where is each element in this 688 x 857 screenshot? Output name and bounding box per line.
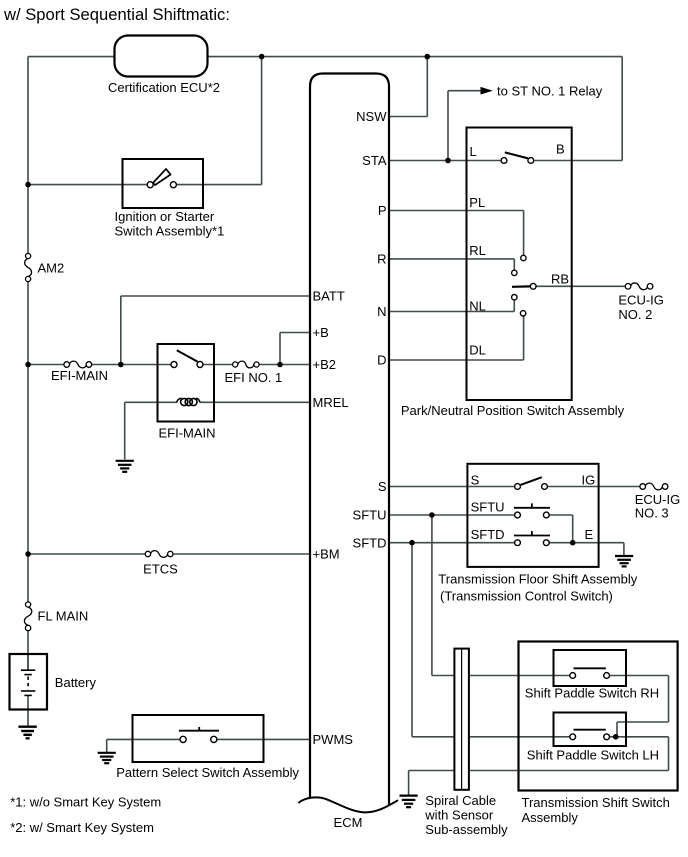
svg-text:Spiral Cable: Spiral Cable: [425, 793, 496, 808]
wire spiral cable ground stem: [408, 771, 410, 795]
ECM body: [310, 74, 389, 807]
wire paddle RH horizontal: [432, 675, 573, 677]
junction SFTU paddle branch: [429, 512, 435, 518]
wire paddle common return: [409, 770, 669, 772]
svg-text:+BM: +BM: [313, 547, 340, 562]
svg-text:Transmission Shift Switch: Transmission Shift Switch: [522, 795, 670, 810]
shift paddle switch LH box: [554, 713, 627, 747]
svg-text:Shift Paddle Switch RH: Shift Paddle Switch RH: [525, 686, 659, 701]
wire pattern select to ECM PWMS: [214, 738, 310, 740]
fuse ETCS: [145, 551, 173, 558]
svg-text:ECM: ECM: [334, 815, 363, 830]
paddle RH contact left: [570, 673, 576, 679]
SFTU switch contact left: [515, 512, 521, 518]
svg-text:Shift Paddle Switch LH: Shift Paddle Switch LH: [527, 748, 659, 763]
SFTU switch bar: [514, 507, 550, 509]
paddle LH contact right: [604, 734, 610, 740]
wire BATT vertical drop: [120, 296, 122, 365]
wire NL contact vertical: [513, 300, 515, 312]
paddle LH contact left: [570, 734, 576, 740]
wire STA to park/neutral switch L: [389, 160, 504, 162]
svg-text:RL: RL: [469, 243, 486, 258]
wire SFTU-SFTD join vertical: [572, 515, 574, 543]
svg-text:w/ Sport Sequential Shiftmatic: w/ Sport Sequential Shiftmatic:: [3, 5, 230, 24]
wire to ST NO.1 relay vertical: [447, 91, 449, 161]
wire paddle LH output right: [607, 736, 669, 738]
svg-text:Battery: Battery: [55, 675, 97, 690]
wire fuse to relay contact: [89, 364, 174, 366]
paddle RH contact right: [604, 673, 610, 679]
svg-text:Certification ECU*2: Certification ECU*2: [108, 80, 220, 95]
svg-text:*2: w/ Smart Key System: *2: w/ Smart Key System: [10, 820, 154, 835]
svg-text:L: L: [470, 144, 477, 159]
wire ignition switch right: [174, 184, 262, 186]
svg-text:AM2: AM2: [38, 260, 65, 275]
pattern select switch stem: [198, 727, 200, 731]
svg-text:Transmission Floor Shift Assem: Transmission Floor Shift Assembly: [438, 571, 637, 586]
svg-text:MREL: MREL: [313, 395, 349, 410]
wire paddle common drop: [668, 737, 670, 771]
junction E line: [570, 540, 576, 546]
junction top bus at NSW branch: [425, 54, 431, 60]
wire +BM left: [28, 553, 148, 555]
junction paddle LH output: [613, 734, 619, 740]
paddle RH bar: [574, 667, 606, 669]
wire left vertical bus middle: [27, 279, 29, 605]
svg-text:Pattern Select Switch Assembly: Pattern Select Switch Assembly: [116, 765, 299, 780]
relay contact right: [197, 362, 203, 368]
wire pattern select switch to ground: [107, 738, 183, 740]
ground E: [615, 556, 633, 566]
svg-text:SFTD: SFTD: [471, 527, 505, 542]
transmission shift switch assembly box: [519, 642, 678, 791]
fuse EFI NO. 1: [233, 361, 260, 368]
wire E ground stem: [623, 543, 625, 556]
wire paddle RH output left jog: [617, 721, 669, 723]
svg-text:RB: RB: [551, 271, 569, 286]
svg-text:Ignition or Starter: Ignition or Starter: [115, 209, 215, 224]
svg-text:NO. 3: NO. 3: [635, 505, 669, 520]
pole contact RB: [530, 283, 536, 289]
SFTD switch bar: [514, 535, 550, 537]
wire IG contact to ECU-IG NO.3 fuse: [545, 486, 643, 488]
svg-text:ETCS: ETCS: [143, 562, 178, 577]
SFTU switch contact right: [543, 512, 549, 518]
STA switch contact L: [501, 158, 507, 164]
wire pattern select ground stem: [106, 739, 108, 752]
fuse EFI-MAIN: [64, 361, 92, 368]
shift paddle switch RH box: [554, 650, 627, 686]
certification ECU U1 box: [115, 36, 208, 77]
svg-text:E: E: [585, 527, 594, 542]
svg-text:IG: IG: [582, 472, 596, 487]
wire EFI-MAIN fuse line left: [28, 364, 67, 366]
svg-text:NL: NL: [469, 299, 486, 314]
svg-text:*1: w/o Smart Key System: *1: w/o Smart Key System: [10, 794, 161, 809]
ground spiral cable: [400, 796, 418, 808]
wire relay contact to EFI NO.1 fuse: [200, 364, 235, 366]
S switch contact right: [542, 484, 548, 490]
junction SFTD paddle branch: [409, 540, 415, 546]
paddle LH bar: [574, 729, 606, 731]
junction top bus at certification ECU branch: [259, 54, 265, 60]
NL contact: [512, 295, 517, 300]
ground battery: [18, 727, 36, 739]
svg-text:NSW: NSW: [356, 109, 387, 124]
pattern select switch box: [133, 715, 264, 762]
wire top bus right segment: [208, 56, 623, 58]
svg-text:SFTU: SFTU: [471, 499, 505, 514]
wire battery internal stub: [27, 654, 29, 670]
svg-text:Switch Assembly*1: Switch Assembly*1: [115, 223, 225, 238]
pattern select switch contact right: [211, 736, 217, 742]
svg-text:SFTU: SFTU: [353, 508, 387, 523]
fuse ECU-IG NO. 2: [625, 283, 653, 290]
spiral cable body: [454, 649, 469, 790]
relay EFI-MAIN box: [158, 344, 215, 422]
svg-text:+B: +B: [313, 325, 329, 340]
pole lever RB: [512, 285, 530, 288]
wire NSW stub: [389, 116, 427, 118]
svg-text:N: N: [377, 304, 386, 319]
svg-text:NO. 2: NO. 2: [618, 307, 652, 322]
ground relay coil: [116, 461, 134, 472]
STA switch contact B: [528, 158, 534, 164]
wire BATT horizontal: [121, 295, 310, 297]
battery plates: [21, 670, 35, 695]
DL contact: [520, 311, 525, 316]
svg-text:S: S: [471, 472, 480, 487]
junction left bus at ignition switch: [25, 182, 31, 188]
wire +B horizontal: [280, 332, 310, 334]
wire S to floor shift switch: [389, 486, 518, 488]
RL contact: [512, 270, 517, 275]
SFTD switch stem: [531, 531, 533, 535]
wire right vertical to STA B: [621, 57, 623, 161]
PL contact: [521, 255, 526, 260]
wire DL contact vertical: [523, 316, 525, 360]
svg-text:to ST NO. 1 Relay: to ST NO. 1 Relay: [497, 83, 603, 98]
wire relay coil to MREL: [125, 401, 177, 403]
wire paddle RH output right: [607, 675, 669, 677]
svg-text:PWMS: PWMS: [313, 732, 354, 747]
ignition switch contact left: [147, 182, 153, 188]
SFTU switch stem: [531, 503, 533, 507]
svg-text:P: P: [378, 203, 387, 218]
wire coil right to ECM MREL: [200, 401, 310, 403]
ignition or starter switch box: [123, 159, 204, 208]
fuse ECU-IG NO. 3: [640, 483, 668, 490]
wire paddle RH output drop: [668, 676, 670, 723]
junction +B branch: [277, 362, 283, 368]
wire battery to ground: [27, 695, 29, 725]
svg-text:EFI NO. 1: EFI NO. 1: [225, 370, 283, 385]
relay coil: [177, 398, 200, 405]
wire D to DL: [389, 359, 524, 361]
wire EFI NO.1 fuse to +B2: [257, 364, 311, 366]
wire certification ECU to ignition switch vertical: [261, 57, 263, 185]
wire NSW vertical to top bus: [426, 57, 428, 117]
junction STA at relay branch: [445, 158, 451, 164]
wire ETCS fuse to ECM +BM: [170, 553, 310, 555]
wire R to RL: [389, 258, 514, 260]
svg-text:SFTD: SFTD: [353, 535, 387, 550]
fuse FL MAIN: [24, 602, 31, 631]
svg-text:D: D: [377, 353, 386, 368]
ECM torn bottom edge: [298, 797, 398, 812]
relay contact left: [171, 362, 177, 368]
svg-text:FL MAIN: FL MAIN: [38, 609, 89, 624]
ground pattern select: [98, 753, 116, 763]
SFTD switch contact right: [543, 540, 549, 546]
arrowhead to ST NO.1 relay: [481, 87, 493, 95]
wire SFTU to floor shift switch: [389, 514, 518, 516]
battery box: [10, 654, 48, 710]
wire PL contact vertical: [523, 211, 525, 256]
wire P to PL: [389, 210, 524, 212]
svg-text:ECU-IG: ECU-IG: [618, 293, 664, 308]
svg-text:BATT: BATT: [313, 289, 345, 304]
wire STA B contact to right bus: [531, 160, 622, 162]
spiral cable center line: [461, 649, 463, 790]
S switch contact left: [515, 484, 521, 490]
wire +B jog vertical: [279, 333, 281, 365]
svg-text:S: S: [378, 479, 387, 494]
svg-text:with Sensor: with Sensor: [424, 807, 494, 822]
wire ignition switch left: [28, 184, 150, 186]
wire RB to ECU-IG NO.2 fuse: [533, 285, 628, 287]
wire SFTD contact to E ground: [546, 542, 624, 544]
svg-text:Sub-assembly: Sub-assembly: [425, 822, 508, 837]
wire left vertical bus lower: [27, 628, 29, 670]
svg-text:B: B: [556, 142, 565, 157]
ignition switch lever: [153, 169, 171, 185]
transmission floor shift box: [467, 464, 598, 567]
wire SFTU contact to E vertical: [546, 514, 572, 516]
relay lever: [177, 350, 198, 361]
ignition switch contact right: [170, 182, 176, 188]
wire top bus left segment: [28, 56, 115, 58]
wire SFTD to floor shift switch: [389, 542, 518, 544]
STA switch lever: [505, 152, 528, 158]
junction BATT drop on EFI-MAIN line: [118, 362, 124, 368]
junction left bus at EFI-MAIN line: [25, 362, 31, 368]
wire to ST NO.1 relay horizontal: [448, 90, 482, 92]
svg-text:PL: PL: [469, 195, 485, 210]
SFTD switch contact left: [515, 540, 521, 546]
svg-text:EFI-MAIN: EFI-MAIN: [158, 425, 215, 440]
fuse AM2: [25, 253, 32, 281]
wire paddle RH output to LH junction: [616, 722, 618, 737]
svg-text:Assembly: Assembly: [522, 810, 579, 825]
svg-text:+B2: +B2: [313, 357, 337, 372]
svg-text:EFI-MAIN: EFI-MAIN: [51, 368, 108, 383]
pattern select switch bar: [179, 730, 219, 732]
park/neutral position switch box: [467, 128, 572, 401]
svg-text:Park/Neutral Position Switch A: Park/Neutral Position Switch Assembly: [401, 403, 625, 418]
svg-text:R: R: [377, 252, 386, 267]
svg-text:STA: STA: [362, 153, 387, 168]
svg-text:(Transmission Control Switch): (Transmission Control Switch): [440, 588, 613, 603]
svg-text:DL: DL: [469, 343, 486, 358]
wire relay coil ground vertical: [124, 402, 126, 459]
wire SFTU branch vertical to paddle RH: [431, 515, 433, 676]
S switch lever: [520, 477, 542, 485]
wire RL contact vertical: [513, 259, 515, 270]
junction left bus at +BM line: [25, 551, 31, 557]
wire SFTD branch vertical to paddle LH: [411, 543, 413, 737]
wire left vertical bus upper: [27, 57, 29, 256]
wire paddle LH horizontal: [412, 736, 573, 738]
pattern select switch contact left: [180, 736, 186, 742]
wire N to NL: [389, 311, 514, 313]
